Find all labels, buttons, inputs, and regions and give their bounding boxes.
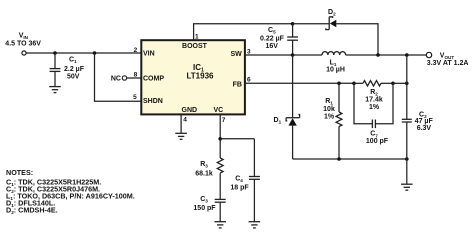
wire COMP [127, 77, 142, 79]
diode D2 (schottky, cathode left) [326, 17, 337, 30]
svg-text:FB: FB [233, 81, 242, 88]
svg-text:COMP: COMP [143, 75, 164, 82]
svg-text:LT1936: LT1936 [187, 72, 215, 81]
pin label VC [214, 107, 224, 114]
junction SW/C5/D1 [291, 53, 295, 57]
wire BOOST pin 1 to top rail [194, 24, 293, 41]
wire SHDN [95, 53, 142, 101]
pin number 2 [134, 47, 138, 54]
ground GND pin [175, 133, 187, 139]
resistor R1 [336, 83, 342, 159]
svg-text:1%: 1% [324, 114, 335, 121]
svg-text:6: 6 [247, 77, 251, 84]
wire FB pin 6 [245, 82, 355, 84]
pin label GND [182, 107, 198, 114]
wire SW pin 3 [245, 54, 293, 56]
junction R1 tap [337, 82, 341, 86]
svg-text:0.22 µF: 0.22 µF [260, 35, 285, 42]
label C4 value [230, 175, 249, 191]
inductor L1 [322, 52, 346, 55]
node VOUT terminal [426, 52, 431, 57]
pin label COMP [143, 75, 164, 82]
wire D2 to VOUT node [336, 24, 378, 55]
junction C2/rail [405, 157, 409, 161]
pin number 7 [222, 117, 226, 124]
svg-text:17.4k: 17.4k [365, 96, 383, 103]
capacitor C5 [287, 24, 298, 55]
svg-text:6.3V: 6.3V [417, 125, 432, 132]
label C7 value [366, 131, 389, 146]
svg-text:NC: NC [111, 75, 121, 82]
wire VC to C4 branch [220, 138, 254, 140]
label C1 value [64, 57, 85, 81]
pin label FB [233, 81, 242, 88]
svg-text:1: 1 [195, 34, 199, 41]
svg-text:SHDN: SHDN [143, 98, 163, 105]
svg-text:4: 4 [183, 117, 187, 124]
svg-text:50V: 50V [67, 74, 80, 81]
svg-text:10k: 10k [323, 106, 335, 113]
svg-text:VIN: VIN [143, 50, 155, 57]
label VIN [5, 32, 41, 47]
junction R1/rail [337, 157, 341, 161]
junction VOUT/C2 [405, 53, 409, 57]
svg-text:NOTES:: NOTES: [6, 168, 33, 177]
label IC1 LT1936 [187, 63, 215, 81]
wire ground rail [293, 158, 407, 160]
IC1 LT1936 body [141, 40, 245, 114]
svg-text:GND: GND [182, 107, 198, 114]
ground C4 [249, 222, 261, 228]
svg-text:68.1k: 68.1k [195, 170, 213, 177]
pin number 5 [133, 94, 137, 101]
svg-text:VC: VC [214, 107, 224, 114]
svg-text:150 pF: 150 pF [193, 205, 216, 212]
label L1 value [326, 60, 345, 74]
label D1 [274, 117, 282, 125]
label R1 value [323, 98, 335, 121]
wire top rail C5 to D2 [293, 23, 330, 25]
label D2 [328, 9, 336, 17]
ground rail symbol [401, 184, 413, 190]
svg-text:3.3V AT 1.2A: 3.3V AT 1.2A [427, 60, 469, 67]
capacitor C1 [50, 53, 61, 87]
svg-text:SW: SW [231, 51, 243, 58]
svg-text:2: 2 [134, 47, 138, 54]
capacitor C3 [215, 199, 226, 221]
svg-text:BOOST: BOOST [182, 43, 208, 50]
svg-text:7: 7 [222, 117, 226, 124]
pin label SW [231, 51, 243, 58]
pin number 4 [183, 117, 187, 124]
pin number 1 [195, 34, 199, 41]
label C5 value [260, 27, 285, 50]
pin number 8 [134, 72, 138, 79]
label R2 value [365, 89, 383, 111]
ground C1 [49, 87, 61, 93]
label R3 value [195, 161, 213, 177]
notes block [6, 168, 135, 215]
node VIN input terminal [22, 51, 26, 55]
wire VC pin 7 [219, 114, 221, 158]
svg-text:18 pF: 18 pF [230, 185, 249, 192]
pin number 6 [247, 77, 251, 84]
wire VIN to pin 2 [26, 52, 141, 54]
pin label BOOST [182, 43, 208, 50]
svg-text:8: 8 [134, 72, 138, 79]
svg-text:16V: 16V [266, 43, 279, 50]
pin label VIN [143, 50, 155, 57]
junction L1/D2 output [376, 53, 380, 57]
pin label SHDN [143, 98, 163, 105]
wire GND pin 4 [180, 114, 182, 133]
svg-text:4.5 TO 36V: 4.5 TO 36V [5, 41, 41, 48]
wire L1 to VOUT terminal [346, 54, 427, 56]
pin number 3 [247, 49, 251, 56]
resistor R3 [217, 158, 223, 199]
ground C3 [214, 222, 226, 228]
capacitor C4 [249, 139, 260, 222]
label C3 value [193, 196, 216, 212]
diode D1 (schottky, cathode up) [286, 55, 300, 159]
wire FB to C2 branch [393, 82, 407, 84]
wire rail to ground [406, 159, 408, 184]
svg-text:100 pF: 100 pF [366, 138, 389, 145]
svg-text:1%: 1% [369, 104, 380, 111]
capacitor C2 [402, 55, 412, 159]
svg-text:5: 5 [133, 94, 137, 101]
svg-text:D2: CMDSH-4E.: D2: CMDSH-4E. [6, 206, 58, 216]
junction FB/C2 [405, 82, 409, 86]
capacitor C7 parallel loop [354, 83, 393, 128]
wire SW node to L1 [293, 54, 322, 56]
svg-text:47 µF: 47 µF [415, 118, 434, 125]
resistor R2 [354, 81, 393, 86]
junction R2/C7 left [352, 82, 356, 86]
junction C1 tap [53, 51, 57, 55]
svg-text:2.2 µF: 2.2 µF [64, 66, 85, 73]
junction VC/C4 [218, 137, 222, 141]
junction BOOST/C5 [291, 22, 295, 26]
label C2 value [415, 111, 434, 132]
svg-text:10 µH: 10 µH [326, 67, 345, 74]
junction R2/C7 right [391, 82, 395, 86]
node NC terminal [111, 75, 127, 82]
label VOUT [427, 52, 469, 67]
junction SHDN tap [93, 51, 97, 55]
